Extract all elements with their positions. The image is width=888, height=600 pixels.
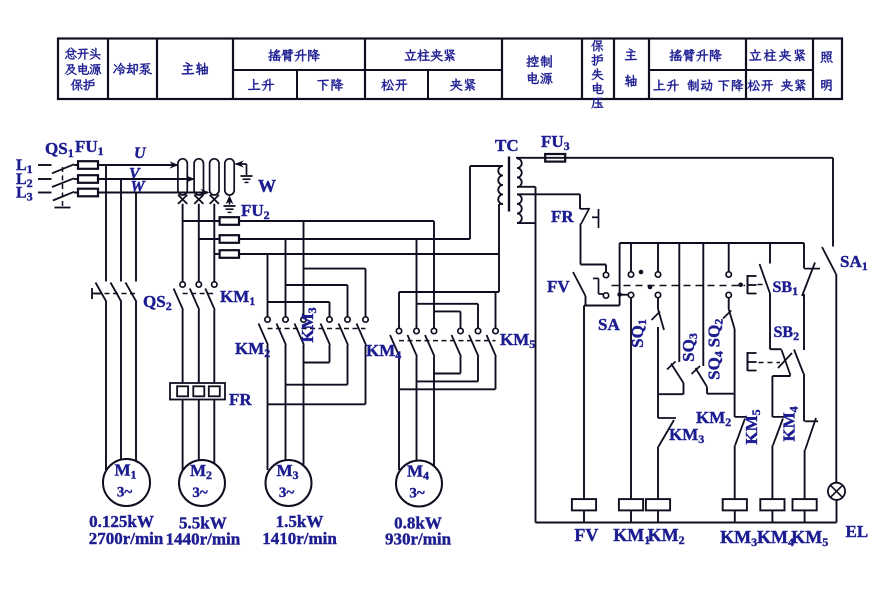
svg-text:1410r/min: 1410r/min — [262, 529, 337, 548]
svg-text:2700r/min: 2700r/min — [89, 529, 164, 548]
svg-text:TC: TC — [495, 136, 519, 155]
svg-text:3~: 3~ — [409, 486, 425, 502]
svg-text:W: W — [258, 176, 276, 196]
svg-text:EL: EL — [846, 522, 869, 541]
svg-text:SA: SA — [598, 315, 620, 334]
svg-text:3~: 3~ — [279, 485, 295, 501]
svg-text:930r/min: 930r/min — [385, 530, 452, 549]
svg-text:FR: FR — [551, 207, 574, 226]
svg-text:FR: FR — [229, 390, 252, 409]
svg-text:U: U — [134, 145, 147, 162]
svg-text:W: W — [131, 179, 147, 196]
svg-text:FV: FV — [547, 277, 570, 296]
svg-text:3~: 3~ — [192, 485, 208, 501]
svg-text:3~: 3~ — [117, 485, 133, 501]
svg-text:1440r/min: 1440r/min — [166, 530, 241, 549]
svg-text:FV: FV — [574, 525, 598, 545]
